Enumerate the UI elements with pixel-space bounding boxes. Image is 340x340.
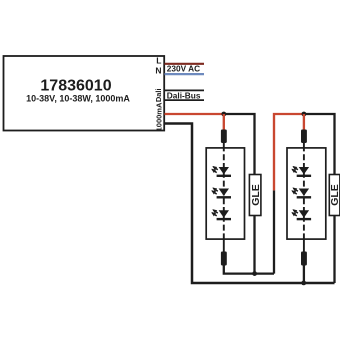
wire connector J1 to module 1 — [223, 143, 225, 149]
svg-text:10-38V, 10-38W, 1000mA: 10-38V, 10-38W, 1000mA — [26, 94, 130, 104]
LED D6 — [292, 210, 311, 220]
wire GLE1 bottom branch — [253, 216, 255, 274]
wire Dali 2 — [165, 99, 205, 101]
resistor GLE1 — [249, 175, 261, 216]
LED module M1 outline — [206, 148, 244, 239]
svg-text:1000mA: 1000mA — [154, 102, 163, 131]
node B (junction dot, GLE1 bottom) — [252, 271, 257, 276]
LED D3 — [212, 210, 231, 220]
LED D5 — [292, 188, 311, 198]
wire GLE2 bottom branch — [333, 216, 335, 284]
svg-text:GLE: GLE — [329, 184, 340, 206]
wire series link rising (black part) — [273, 190, 275, 273]
wire Dali 1 — [165, 89, 205, 91]
wire module 1 bottom to series link — [224, 265, 274, 274]
wire module 2 bottom — [303, 239, 305, 252]
LED D4 — [292, 167, 311, 177]
svg-text:17836010: 17836010 — [40, 77, 111, 94]
svg-text:230V AC: 230V AC — [167, 63, 200, 73]
wire N (230V AC neutral) — [165, 73, 205, 75]
wire series link rising (red part) — [274, 114, 304, 190]
node D (junction dot, return) — [301, 281, 306, 286]
connector J2 (module 1 bottom) — [221, 252, 227, 266]
wire module 2 bottom to return — [303, 265, 305, 283]
wire node C to GLE2 branch — [304, 114, 335, 175]
wire L (230V AC live) — [165, 63, 205, 65]
connector J3 (module 2 top) — [301, 130, 307, 144]
wire red drop module 1 — [223, 114, 225, 131]
node C (junction dot, module 2 top) — [302, 112, 307, 117]
svg-text:Dali-Bus: Dali-Bus — [167, 90, 201, 100]
connector J1 (module 1 top) — [221, 130, 227, 144]
wire module 1 bottom — [223, 239, 225, 252]
wire return (black) from driver — [165, 124, 335, 284]
driver U1 (LED driver 17836010) — [4, 56, 165, 131]
connector J4 (module 2 bottom) — [301, 252, 307, 266]
wire module 2 internal (dashed) — [303, 148, 305, 239]
LED D2 — [212, 188, 231, 198]
LED D1 — [212, 167, 231, 177]
svg-text:GLE: GLE — [250, 184, 262, 206]
wire connector J3 to module 2 — [303, 143, 305, 149]
node A (junction dot, module 1 top) — [221, 112, 226, 117]
LED module M2 outline — [287, 148, 326, 239]
wire node A to GLE1 branch — [224, 114, 255, 175]
svg-text:Dali: Dali — [154, 88, 163, 102]
wire 1000mA + (red) from driver to node A — [165, 113, 224, 115]
resistor GLE2 — [329, 175, 340, 216]
wire red drop module 2 — [303, 114, 305, 131]
svg-text:L: L — [156, 55, 161, 65]
wire module 1 internal (dashed) — [223, 148, 225, 239]
svg-text:N: N — [155, 65, 161, 75]
